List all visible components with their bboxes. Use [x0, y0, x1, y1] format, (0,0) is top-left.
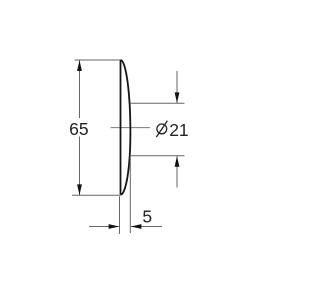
extension line bottom (d21) [130, 155, 184, 157]
dimension line 65 lower segment [79, 137, 81, 196]
arrow down (d21) [175, 92, 180, 103]
centerline [111, 127, 151, 129]
extension line bottom (65) [72, 194, 120, 196]
extension line top (65) [75, 59, 121, 61]
dimension line d21 lower [176, 156, 178, 187]
extension line left (5) [119, 196, 121, 234]
cap dome curve [121, 60, 131, 195]
arrow up (65) [77, 60, 82, 71]
dimension line 5 left [89, 226, 119, 228]
arrow right (5) [109, 224, 120, 229]
dimension line d21 upper [176, 71, 178, 103]
arrow left (5) [131, 224, 142, 229]
diameter symbol [156, 121, 167, 137]
svg-text:5: 5 [142, 207, 152, 227]
dimension line 65 upper segment [79, 61, 81, 119]
svg-text:21: 21 [169, 120, 188, 140]
extension line right (5) [129, 156, 131, 233]
arrow up (d21) [175, 156, 180, 167]
svg-text:65: 65 [69, 119, 88, 139]
extension line top (d21) [130, 102, 185, 104]
cap left edge [120, 60, 122, 195]
dimension line 5 right [131, 226, 162, 228]
arrow down (65) [77, 184, 82, 195]
